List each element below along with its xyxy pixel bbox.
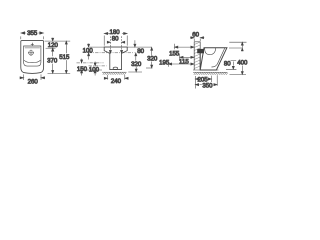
svg-text:150: 150 bbox=[77, 66, 88, 73]
dim 100 upper-left bbox=[88, 44, 90, 60]
dim 400 bbox=[229, 42, 246, 74]
svg-text:350: 350 bbox=[202, 82, 213, 89]
dim 150 arrows bbox=[81, 59, 83, 76]
drain ellipse bbox=[113, 67, 118, 69]
dim 260 bbox=[20, 74, 45, 80]
svg-text:155: 155 bbox=[169, 50, 180, 57]
front view inner bowl rim bbox=[24, 46, 41, 66]
baseline floor middle-left bbox=[79, 69, 103, 71]
svg-text:240: 240 bbox=[111, 78, 122, 85]
tap block filled bbox=[197, 49, 204, 53]
svg-text:115: 115 bbox=[179, 58, 189, 65]
dim 350 bbox=[195, 75, 217, 85]
dim 80 right bbox=[226, 60, 236, 69]
dim 355 bbox=[21, 32, 44, 39]
bidet side silhouette bbox=[200, 48, 227, 70]
floor hatch right bbox=[193, 72, 228, 75]
front view bowl inner curve bbox=[24, 60, 40, 62]
ref line under mid chain bbox=[128, 71, 142, 73]
svg-text:60: 60 bbox=[192, 32, 199, 39]
svg-text:355: 355 bbox=[27, 30, 38, 37]
dim 240 bbox=[104, 75, 128, 80]
dim 80 top bbox=[107, 41, 125, 43]
middle body flange/pedestal bbox=[104, 47, 127, 70]
svg-text:80: 80 bbox=[224, 60, 231, 67]
wall hatch bbox=[194, 42, 200, 69]
front view rim inner edge bbox=[25, 47, 40, 49]
dim 370 bbox=[52, 48, 54, 73]
fixing hole dashed centerlines bbox=[110, 36, 121, 50]
dim 195 to wall bbox=[168, 61, 194, 66]
dim 320 standalone bbox=[146, 47, 153, 68]
floor baseline right bbox=[193, 69, 219, 71]
front view drain symbol bbox=[28, 50, 34, 56]
svg-text:100: 100 bbox=[83, 47, 94, 54]
level line 100 low bbox=[89, 65, 107, 67]
dim 205 bbox=[195, 76, 211, 89]
ext line floor front bbox=[48, 72, 71, 74]
svg-text:515: 515 bbox=[59, 54, 70, 61]
long ref line at flange top level bbox=[89, 46, 152, 48]
svg-text:260: 260 bbox=[28, 78, 39, 85]
ext line fixture top right bbox=[45, 40, 71, 42]
svg-text:120: 120 bbox=[48, 42, 59, 49]
deck level ref to 400 line bbox=[229, 48, 243, 51]
dim 100 low arrows bbox=[94, 62, 96, 76]
dim 515 bbox=[65, 41, 67, 73]
ext line tap level bbox=[46, 47, 56, 49]
dim 120 bbox=[52, 38, 54, 51]
svg-text:80: 80 bbox=[112, 36, 119, 43]
svg-text:400: 400 bbox=[237, 59, 248, 66]
svg-text:195: 195 bbox=[159, 59, 170, 66]
middle right chain: arrow to flange top bbox=[134, 40, 136, 47]
dim 320 mid chain bbox=[135, 53, 138, 72]
svg-text:80: 80 bbox=[137, 48, 144, 55]
level line 150 bbox=[77, 62, 104, 64]
front view tap hole bbox=[31, 43, 34, 46]
front face inner line bbox=[212, 48, 225, 67]
front view outer body bbox=[21, 41, 44, 74]
bowl section curve bbox=[205, 48, 216, 55]
svg-text:320: 320 bbox=[147, 56, 158, 63]
floor hatch middle bbox=[102, 72, 127, 75]
dim 115 to wall bbox=[180, 54, 195, 60]
svg-text:370: 370 bbox=[47, 58, 58, 65]
dim 180 bbox=[104, 32, 127, 45]
svg-text:320: 320 bbox=[131, 61, 142, 68]
dim 60 over wall bbox=[190, 37, 204, 42]
hole datum dash-dot line bbox=[89, 52, 135, 54]
dim 155 to wall bbox=[175, 44, 195, 50]
wall strip bbox=[194, 42, 200, 70]
